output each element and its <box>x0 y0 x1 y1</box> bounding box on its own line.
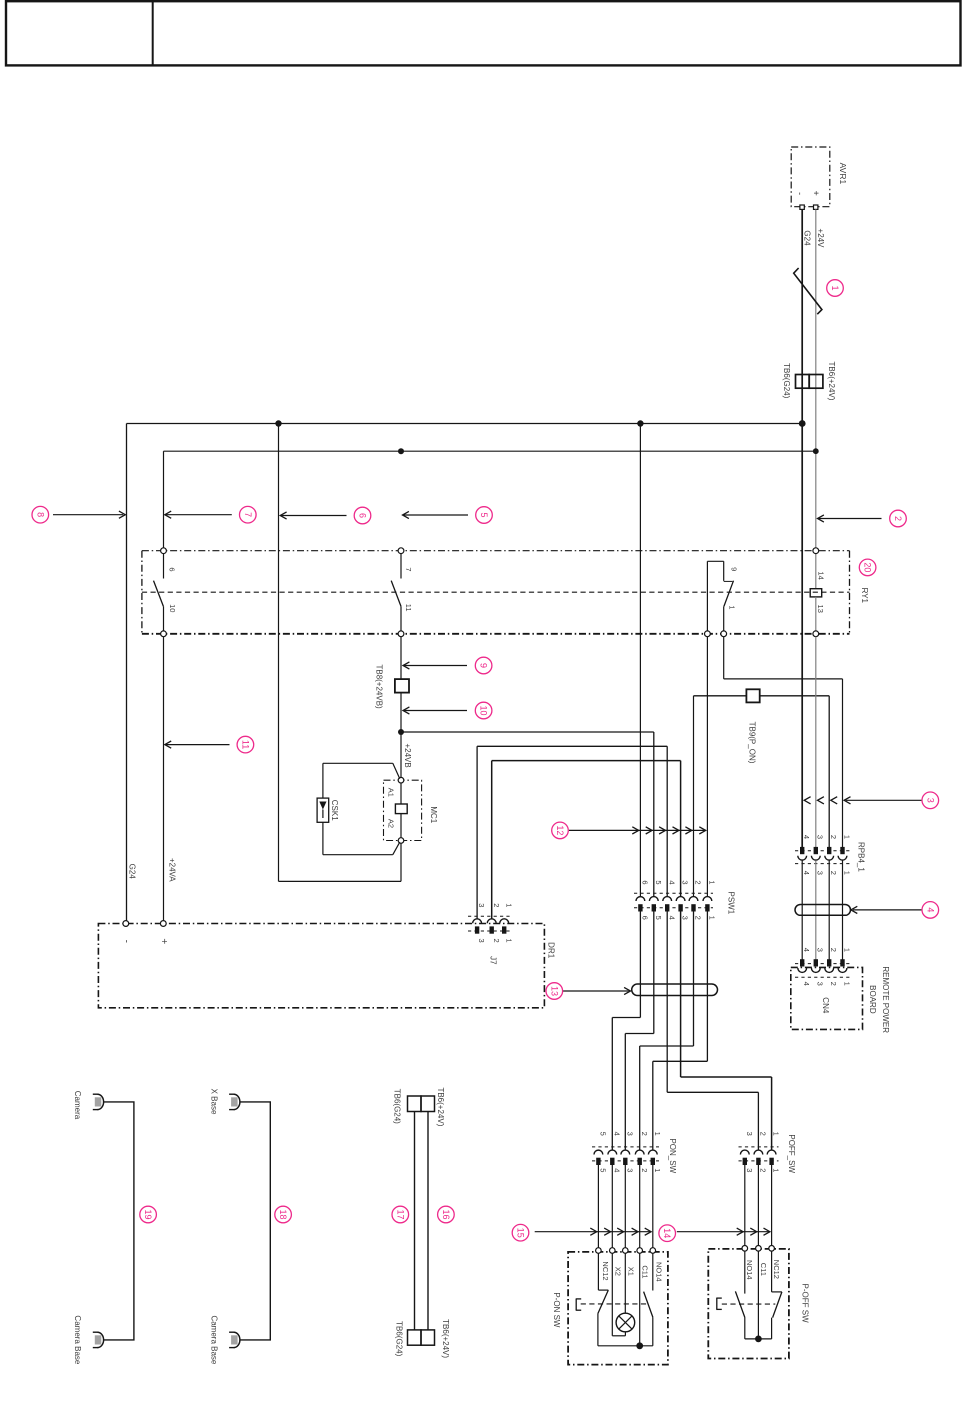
wire horizontal MC1 A2 branch <box>279 880 402 882</box>
P-OFF SW common bar <box>745 1338 772 1340</box>
svg-text:13: 13 <box>816 605 825 613</box>
P-ON SW C11 lead <box>639 1253 641 1346</box>
connector PSW1 pin 4 <box>663 897 672 912</box>
RY1 pin circle 9-left <box>705 631 711 637</box>
svg-text:9: 9 <box>479 663 489 668</box>
svg-text:PON_SW: PON_SW <box>668 1138 677 1173</box>
relay RY1 box top edge <box>142 550 850 552</box>
connector PSW1 dashed mate line upper <box>634 892 713 894</box>
RY1 contact 7-11 blade <box>391 581 401 607</box>
connector POFF_SW pin 2 <box>754 1150 763 1165</box>
junction dot +24VB branch <box>398 729 404 735</box>
wire RY1 pin1 elbow stub <box>723 637 725 679</box>
svg-text:8: 8 <box>35 512 45 517</box>
P-OFF SW pin circles <box>742 1246 774 1252</box>
TB6(G24) label <box>782 363 791 398</box>
svg-text:Camera Base: Camera Base <box>209 1315 218 1364</box>
connector PSW1 pin 3 <box>676 897 685 912</box>
svg-text:1: 1 <box>830 285 840 290</box>
wire TB9 to RPB4_1-2 vertical <box>828 696 830 848</box>
RY1 pin circle 13 <box>813 631 819 637</box>
svg-text:TB6(+24V): TB6(+24V) <box>436 1087 445 1126</box>
RY1 pin circle 10 <box>161 631 167 637</box>
RY1 pin 14 label <box>816 571 825 579</box>
TB9(P_ON) label <box>748 722 757 764</box>
svg-text:11: 11 <box>404 604 413 612</box>
P-OFF SW name label <box>800 1284 809 1324</box>
relay RY1 box right edge <box>849 551 851 634</box>
CSK1 diode arrow <box>319 802 326 819</box>
svg-text:4: 4 <box>802 871 811 875</box>
svg-text:3: 3 <box>745 1168 754 1172</box>
callout 5 arrow <box>403 511 469 518</box>
callout 2 <box>890 510 907 527</box>
svg-text:7: 7 <box>404 567 413 571</box>
TB6(G24) label bottom <box>394 1321 403 1356</box>
svg-text:+: + <box>158 938 169 944</box>
RY1 pin circle 11 <box>398 631 404 637</box>
Camera label <box>73 1091 82 1120</box>
P-OFF SW C11 lead <box>757 1251 759 1339</box>
P-ON SW name label <box>552 1292 561 1328</box>
P-ON SW linkage dashed <box>581 1303 650 1305</box>
svg-text:2: 2 <box>829 871 838 875</box>
svg-text:6: 6 <box>167 567 176 571</box>
POFF_SW pin dashes row <box>739 1160 779 1162</box>
callout 8 <box>32 506 49 523</box>
svg-text:3: 3 <box>681 880 690 884</box>
P-ON SW common bar <box>598 1345 653 1347</box>
connector PSW1 pin 6 <box>636 897 645 912</box>
terminal block TB6(+24V) square <box>809 375 823 389</box>
svg-text:3: 3 <box>816 982 825 986</box>
wire RY1 pin1 elbow horizontal <box>724 678 843 680</box>
RPB4_1 name label <box>857 842 866 872</box>
wire G24 bus vertical <box>801 209 803 847</box>
svg-text:NC12: NC12 <box>772 1260 781 1279</box>
P-OFF SW NC lower lead <box>771 1318 773 1339</box>
svg-text:4: 4 <box>925 907 935 912</box>
connector J7 pin 1 <box>500 919 509 934</box>
svg-text:3: 3 <box>816 835 825 839</box>
DR1 name label <box>546 942 555 959</box>
svg-text:2: 2 <box>759 1132 768 1136</box>
callout 19 <box>140 1206 157 1223</box>
RY1 pin 7 label <box>404 567 413 571</box>
svg-text:NO14: NO14 <box>745 1260 754 1280</box>
TB6 cable top squares <box>408 1096 435 1112</box>
svg-text:1: 1 <box>653 1168 662 1172</box>
callout 13 arrow <box>563 987 631 994</box>
wire +24V bus lower <box>815 637 817 848</box>
wire horizontal +24V distribution <box>164 450 816 452</box>
RY1 pin circle 7 <box>398 548 404 554</box>
wire TB9 line right <box>760 695 830 697</box>
svg-text:TB6(G24): TB6(G24) <box>394 1321 403 1356</box>
svg-text:3: 3 <box>477 939 486 943</box>
wire +24VB to PSW1-4 horizontal <box>477 745 667 747</box>
X Base lug <box>229 1094 240 1109</box>
header table divider <box>152 1 154 65</box>
svg-text:2: 2 <box>640 1168 649 1172</box>
terminal block TB8(+24VB) square <box>395 679 409 693</box>
junction dot G24/PSW1 branch <box>637 420 643 426</box>
svg-text:X1: X1 <box>626 1267 635 1276</box>
switch P-OFF SW box <box>708 1249 789 1359</box>
svg-text:MC1: MC1 <box>429 806 438 823</box>
connector J7 pin 2 <box>487 919 496 934</box>
svg-text:Camera: Camera <box>73 1091 82 1120</box>
svg-text:2: 2 <box>893 516 903 521</box>
PSW1 pin labels top <box>641 880 717 884</box>
svg-text:1: 1 <box>653 1132 662 1136</box>
callout 12 <box>552 822 569 839</box>
driver unit DR1 box <box>98 924 544 1008</box>
svg-text:2: 2 <box>759 1168 768 1172</box>
DR1 minus label <box>120 940 131 943</box>
svg-text:7: 7 <box>243 512 253 517</box>
wire CSK1 bottom horizontal <box>323 854 393 856</box>
CN4 name label <box>821 997 830 1014</box>
RY1 coil wire upper <box>815 554 817 589</box>
svg-text:1: 1 <box>504 939 513 943</box>
svg-text:2: 2 <box>640 1132 649 1136</box>
svg-text:3: 3 <box>925 798 935 803</box>
svg-text:4: 4 <box>802 982 811 986</box>
connector J7 pin dashes row <box>468 930 512 932</box>
svg-text:2: 2 <box>694 880 703 884</box>
PON_SW pin labels top <box>599 1132 662 1136</box>
connector PON_SW pin 1 <box>648 1150 657 1165</box>
svg-text:10: 10 <box>479 705 489 715</box>
svg-text:1: 1 <box>772 1132 781 1136</box>
connector CN4 pin 3 <box>811 959 820 972</box>
header table frame <box>6 1 961 65</box>
connector CN4 pin 4 <box>798 959 807 972</box>
DR1 pin circle minus <box>123 921 129 927</box>
connector J7 wire pin2 <box>491 761 493 919</box>
connector PON_SW pin 4 <box>608 1150 617 1165</box>
svg-text:X2: X2 <box>614 1267 623 1276</box>
RY1 pin 6 label <box>167 567 176 571</box>
svg-text:G24: G24 <box>803 230 812 246</box>
svg-text:6: 6 <box>358 513 368 518</box>
connector RPB4_1 pin 4 <box>798 847 807 860</box>
PON_SW pin labels bottom <box>599 1168 662 1172</box>
callout 6 <box>354 507 371 524</box>
relay RY1 box left edge <box>141 551 143 634</box>
RY1 pin 10 label <box>168 604 177 612</box>
DR1 pin circle plus <box>160 921 166 927</box>
connector POFF_SW pin 1 <box>767 1150 776 1165</box>
svg-text:4: 4 <box>802 835 811 839</box>
svg-text:6: 6 <box>641 916 650 920</box>
RY1 contact 9-1 right leg upper <box>723 561 725 581</box>
RPB4_1 pin labels bottom <box>802 871 851 875</box>
RY1 contact 9-1 blade <box>724 581 734 607</box>
svg-text:RPB4_1: RPB4_1 <box>857 842 866 872</box>
P-ON SW NO contact blade <box>644 1292 653 1318</box>
svg-text:CSK1: CSK1 <box>330 800 339 821</box>
terminal block TB6(G24) square <box>796 375 810 389</box>
RY1 coil rectangle 14-13 <box>810 589 822 597</box>
junction dot G24 bus <box>799 420 806 427</box>
svg-text:J7: J7 <box>488 956 497 965</box>
PON_SW pin dashes row <box>592 1160 659 1162</box>
svg-text:19: 19 <box>143 1209 153 1219</box>
svg-text:2: 2 <box>492 903 501 907</box>
junction dot +24V bus <box>813 448 819 454</box>
svg-text:1: 1 <box>708 880 717 884</box>
svg-text:12: 12 <box>555 825 565 835</box>
callout 13 <box>546 983 563 1000</box>
RPB4_1 pin labels top <box>802 835 851 839</box>
TB6(+24V) label <box>827 362 836 401</box>
connector RPB4_1 pin 3 <box>811 847 820 860</box>
connector PSW1 pin 5 <box>649 897 658 912</box>
RY1 contact 7-11 lower stub <box>400 606 402 631</box>
P-ON SW lamp <box>616 1313 635 1336</box>
connector RPB4_1 pin 2 <box>825 847 834 860</box>
svg-text:16: 16 <box>441 1209 451 1219</box>
svg-text:2: 2 <box>694 916 703 920</box>
DR1 plus label <box>158 938 169 944</box>
TB6(G24) label top <box>392 1089 401 1124</box>
RY1 contact 6-10 blade <box>154 581 164 607</box>
callout 4 arrow <box>851 906 922 913</box>
MC1 A2 label <box>387 819 396 828</box>
svg-text:1: 1 <box>772 1168 781 1172</box>
svg-text:+24VB: +24VB <box>403 743 412 767</box>
wire horizontal G24 distribution <box>127 423 803 425</box>
MC1 pin circle A1 <box>398 777 404 783</box>
slack symbol on AVR1 leads (item 1) <box>794 268 822 314</box>
wire CSK1 top horizontal <box>323 762 393 764</box>
P-ON SW junction dot <box>636 1342 643 1349</box>
connector POFF_SW pin 3 <box>740 1150 749 1165</box>
svg-text:1: 1 <box>504 903 513 907</box>
CN4 pin labels bottom <box>802 982 851 986</box>
svg-text:5: 5 <box>599 1132 608 1136</box>
svg-text:5: 5 <box>599 1168 608 1172</box>
MC1 coil wire lower <box>400 814 402 838</box>
junction dot G24/MC1 branch <box>275 420 281 426</box>
callout 1 <box>827 280 844 297</box>
svg-text:15: 15 <box>516 1228 526 1238</box>
connector J7 pin 3 <box>473 919 482 934</box>
svg-text:+24V: +24V <box>816 229 825 249</box>
connector PSW1 pin 2 <box>689 897 698 912</box>
callout 16 <box>438 1206 455 1223</box>
callout 17 <box>392 1206 409 1223</box>
P-OFF SW linkage dashed <box>722 1303 776 1305</box>
callout 9 arrow <box>403 662 467 669</box>
callout 7 <box>240 506 257 523</box>
P-OFF SW ground bracket <box>716 1298 722 1309</box>
TB6 cable wire +24V (item 16) <box>427 1112 429 1330</box>
RY1 name label <box>860 588 869 604</box>
callout 4 <box>922 902 939 919</box>
svg-text:17: 17 <box>395 1209 405 1219</box>
POFF_SW pin labels bottom <box>745 1168 781 1172</box>
P-ON SW ground bracket <box>576 1299 582 1310</box>
CN4 pin labels top <box>802 948 851 952</box>
wires POFF_SW to P-OFF SW pins <box>745 1164 772 1245</box>
callout 7 arrow <box>165 511 232 518</box>
AVR1 pin + terminal <box>814 205 818 209</box>
svg-text:5: 5 <box>654 880 663 884</box>
svg-text:CN4: CN4 <box>821 997 830 1014</box>
callout 3 <box>922 792 939 809</box>
callout 2 arrow <box>818 515 882 522</box>
MC1 coil wire upper <box>400 783 402 804</box>
RY1 contact 7-11 upper stub <box>400 554 402 579</box>
svg-text:A2: A2 <box>387 819 396 828</box>
wire +24VB branch to PSW1-5 <box>653 732 655 896</box>
G24 net label at DR1 <box>128 864 137 880</box>
svg-text:4: 4 <box>612 1132 621 1136</box>
connector CN4 pin 2 <box>825 959 834 972</box>
TB6 cable wire G24 (item 17) <box>414 1112 416 1330</box>
svg-text:POFF_SW: POFF_SW <box>787 1134 796 1173</box>
CN4 pin dashes row <box>795 963 850 965</box>
svg-text:10: 10 <box>168 604 177 612</box>
svg-text:TB6(+24V): TB6(+24V) <box>827 362 836 401</box>
wire PSW1-6 to PON-4 <box>612 912 640 1150</box>
svg-text:TB6(G24): TB6(G24) <box>392 1089 401 1124</box>
wire TB8 square to MC1 <box>400 693 402 778</box>
svg-text:2: 2 <box>829 948 838 952</box>
svg-text:9: 9 <box>729 567 738 571</box>
wires RPB4_1 to CN4 <box>802 860 842 960</box>
wire TB9 to PSW1-2 vertical <box>693 696 695 897</box>
wire to RPB4_1-1 vertical <box>842 679 844 848</box>
P-ON SW NC contact blade <box>598 1290 608 1313</box>
REMOTE POWER BOARD label <box>868 966 890 1033</box>
wire PSW1-2 to PON-2 <box>640 912 694 1150</box>
RY1 contact 9-1 right leg lower <box>723 606 725 631</box>
svg-text:20: 20 <box>863 562 873 572</box>
svg-text:3: 3 <box>477 903 486 907</box>
svg-text:C11: C11 <box>759 1263 768 1276</box>
POFF_SW pin labels top <box>745 1132 781 1136</box>
RY1 pin circle 14 <box>813 548 819 554</box>
P-ON SW X2 lead <box>612 1253 625 1336</box>
wire CSK1 top vertical <box>322 763 324 798</box>
RY1 coil wire lower <box>815 597 817 631</box>
svg-text:2: 2 <box>829 835 838 839</box>
svg-text:PSW1: PSW1 <box>727 892 736 915</box>
callout 3 arrow <box>804 797 922 804</box>
wire PSW1-4 to POFF-2 <box>667 912 758 1150</box>
svg-text:TB8(+24VB): TB8(+24VB) <box>375 664 384 709</box>
+24VB net label <box>403 743 412 767</box>
wire G24 label <box>803 230 812 246</box>
svg-text:BOARD: BOARD <box>868 985 877 1014</box>
P-ON SW X1 lead <box>624 1253 626 1313</box>
svg-text:3: 3 <box>816 948 825 952</box>
wire TB9 line left <box>694 695 747 697</box>
connector PSW1 pin 1 <box>703 897 712 912</box>
callout 12 arrow <box>569 827 706 834</box>
RY1 contact 9-1 top bridge <box>707 560 723 562</box>
svg-text:-: - <box>795 192 805 195</box>
callout 11 arrow <box>165 741 230 748</box>
svg-text:G24: G24 <box>128 864 137 880</box>
X Base label <box>209 1089 218 1115</box>
MC1 A1 label <box>387 788 396 797</box>
callout 11 <box>237 736 254 753</box>
connector PON_SW pin 5 <box>594 1150 603 1165</box>
wire +24VB branch horizontal <box>401 731 654 733</box>
callout 14 arrow <box>677 1228 770 1235</box>
svg-text:1: 1 <box>842 835 851 839</box>
relay RY1 linkage dashed line <box>142 591 850 593</box>
wire vertical contact6 to DR1 plus lower <box>163 637 165 921</box>
P-OFF SW NC contact blade <box>773 1292 782 1318</box>
wire CSK1 bottom diagonal to A2 <box>393 842 400 855</box>
P-ON SW pin circles <box>596 1248 656 1254</box>
svg-text:1: 1 <box>842 948 851 952</box>
svg-text:TB6(G24): TB6(G24) <box>782 363 791 398</box>
wire vertical contact6 to DR1 plus upper <box>163 451 165 548</box>
svg-text:4: 4 <box>667 880 676 884</box>
svg-text:NO14: NO14 <box>655 1262 664 1282</box>
terminal block TB9(P_ON) square <box>746 689 759 702</box>
callout 5 <box>476 507 493 524</box>
svg-text:2: 2 <box>492 939 501 943</box>
surge killer CSK1 body <box>317 798 329 822</box>
callout 15 <box>512 1224 529 1241</box>
wire vertical MC1 A2 branch <box>278 424 280 882</box>
RY1 pin circle 6 <box>161 548 167 554</box>
Camera Base label (item 18) <box>209 1315 218 1364</box>
connector J7 dashed mate line <box>468 915 512 917</box>
P-ON SW NO14 stub <box>652 1253 654 1290</box>
PSW1 pin labels bottom <box>641 916 717 920</box>
P-ON SW NO lower lead <box>652 1317 654 1345</box>
TB6(+24V) label bottom <box>441 1319 450 1358</box>
Camera Base label (item 19) <box>73 1315 82 1364</box>
P-OFF SW NO contact blade <box>735 1291 745 1317</box>
svg-text:3: 3 <box>625 1132 634 1136</box>
wire G24 branch to PSW1-6 <box>639 424 641 897</box>
wire CSK1 top diagonal to A1 <box>393 763 400 779</box>
wire vertical to DR1 minus <box>126 424 128 921</box>
cable sheath oval item 13 <box>632 984 718 996</box>
connector PON_SW dashed mate line <box>592 1146 659 1148</box>
cable sheath oval item 4 <box>795 905 851 916</box>
svg-text:3: 3 <box>625 1168 634 1172</box>
svg-text:TB9(P_ON): TB9(P_ON) <box>748 722 757 764</box>
+24VA net label at DR1 <box>168 858 177 882</box>
RY1 contact 6-10 lower stub <box>163 606 165 631</box>
svg-text:6: 6 <box>641 880 650 884</box>
wire to PSW1-3 vertical <box>680 761 682 897</box>
RPB4_1 pin dashes row <box>795 850 850 852</box>
P-ON SW NC12 lead <box>598 1253 608 1290</box>
svg-text:P-ON SW: P-ON SW <box>552 1292 561 1328</box>
svg-text:2: 2 <box>829 982 838 986</box>
svg-text:C11: C11 <box>641 1265 650 1278</box>
callout 10 arrow <box>403 707 467 714</box>
RY1 contact 9-1 left leg <box>706 561 708 631</box>
svg-text:-: - <box>120 940 131 943</box>
svg-text:14: 14 <box>816 571 825 579</box>
RY1 pin 9 label <box>729 567 738 571</box>
svg-text:14: 14 <box>662 1228 672 1238</box>
svg-text:X Base: X Base <box>209 1089 218 1115</box>
